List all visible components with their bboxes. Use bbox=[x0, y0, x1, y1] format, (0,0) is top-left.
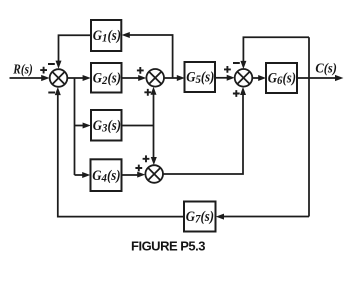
svg-text:G7(s): G7(s) bbox=[186, 209, 214, 226]
wire G6 output to C(s) bbox=[297, 75, 343, 81]
sign + at SJ4 top input bbox=[143, 155, 150, 162]
sign + at SJ2 left input bbox=[137, 67, 144, 74]
wire feedback pickoff vertical line after G6 bbox=[308, 37, 310, 216]
block G2 bbox=[91, 63, 122, 93]
summing junction SJ4 bbox=[145, 165, 163, 183]
wire G7 output left and up into SJ1 bottom bbox=[55, 87, 184, 217]
wire G4 output into SJ4 bbox=[121, 172, 145, 178]
wire G1 feedback pickoff from SJ2 output up into G1 bbox=[122, 32, 173, 78]
svg-text:R(s): R(s) bbox=[12, 61, 32, 76]
sign + at SJ2 bottom input bbox=[144, 89, 151, 96]
svg-text:G1(s): G1(s) bbox=[93, 28, 121, 45]
svg-text:G2(s): G2(s) bbox=[93, 70, 121, 87]
block G1 bbox=[91, 20, 121, 51]
summing junction SJ3 bbox=[235, 69, 253, 87]
block G6 bbox=[266, 63, 297, 93]
block G7 bbox=[184, 202, 216, 232]
sign - at SJ3 top input bbox=[233, 62, 240, 64]
svg-text:C(s): C(s) bbox=[315, 61, 337, 76]
block G5 bbox=[185, 62, 216, 92]
block G4 bbox=[91, 159, 122, 191]
sign + at SJ3 bottom input bbox=[233, 90, 240, 97]
wire G5 output into SJ3 bbox=[215, 75, 235, 81]
sign + at SJ4 left input bbox=[135, 165, 142, 172]
wire SJ2 output to G5 bbox=[164, 75, 185, 81]
wire split up into SJ2 bottom and down into SJ4 top bbox=[151, 87, 157, 165]
svg-text:G3(s): G3(s) bbox=[93, 118, 121, 135]
sign - at SJ1 bottom input bbox=[48, 92, 55, 94]
sign + at SJ1 left input bbox=[40, 67, 47, 74]
wire SJ3 output into G6 bbox=[252, 75, 266, 81]
wire G1 output into SJ1 top bbox=[56, 35, 92, 69]
wire into G3 bbox=[75, 123, 91, 129]
svg-text:FIGURE P5.3: FIGURE P5.3 bbox=[131, 238, 205, 253]
summing junction SJ1 bbox=[50, 69, 68, 87]
wire branch node down from SJ1 output to G3/G4 rows bbox=[74, 78, 76, 175]
wire R(s) input arrow bbox=[10, 75, 50, 81]
block G3 bbox=[91, 110, 122, 141]
wire into G4 bbox=[75, 172, 91, 178]
summing junction SJ2 bbox=[146, 69, 164, 87]
sign + at SJ3 left input bbox=[224, 66, 231, 73]
wire G2 output into SJ2 bbox=[122, 75, 147, 81]
wire bottom feedback into G7 bbox=[216, 214, 309, 220]
svg-text:G6(s): G6(s) bbox=[268, 71, 296, 88]
wire SJ4 output up into SJ3 bottom bbox=[163, 87, 246, 174]
wire SJ1 output to G2 bbox=[67, 75, 90, 81]
wire G3 output tee bbox=[122, 125, 154, 127]
sign - at SJ1 top input bbox=[48, 63, 55, 65]
svg-text:G4(s): G4(s) bbox=[92, 168, 120, 185]
wire top feedback into SJ3 top bbox=[240, 37, 309, 69]
svg-text:G5(s): G5(s) bbox=[186, 70, 214, 87]
